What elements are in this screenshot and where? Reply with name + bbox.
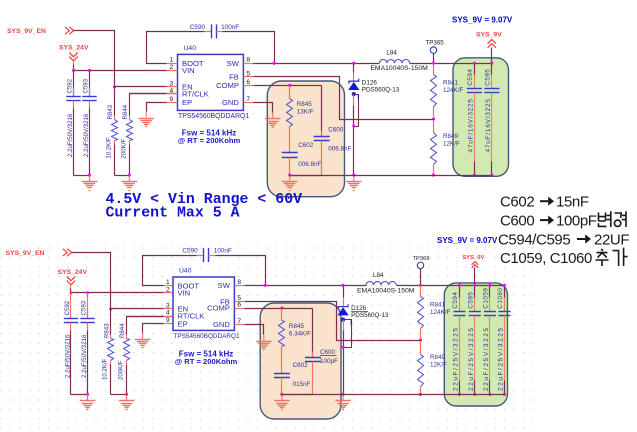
svg-text:R843: R843: [103, 323, 110, 338]
svg-text:SYS_9V: SYS_9V: [476, 32, 502, 39]
junction R849 ground: [419, 393, 422, 396]
junction EN node: [109, 307, 112, 310]
svg-text:9: 9: [166, 317, 170, 324]
svg-text:C602: C602: [298, 142, 314, 149]
svg-text:2: 2: [170, 64, 174, 71]
svg-text:EMA10040S-150M: EMA10040S-150M: [370, 65, 428, 72]
svg-text:22UF: 22UF: [594, 231, 629, 248]
wire GND pin to ground: [254, 103, 273, 113]
svg-text:10.2K/F: 10.2K/F: [106, 137, 113, 159]
svg-text:124K/F: 124K/F: [430, 309, 450, 316]
junction D126 loop: [352, 124, 355, 127]
svg-text:R843: R843: [107, 104, 114, 119]
svg-text:D126: D126: [351, 305, 367, 312]
svg-text:R849: R849: [430, 354, 446, 361]
svg-text:C594/C595: C594/C595: [498, 231, 570, 248]
compensation highlight box (peach): [260, 303, 341, 419]
svg-text:C600: C600: [320, 349, 336, 356]
svg-text:200K/F: 200K/F: [120, 139, 127, 159]
svg-text:EMA10040S-150M: EMA10040S-150M: [357, 287, 415, 294]
svg-text:C595: C595: [467, 292, 474, 309]
svg-text:22uF/25V/3225: 22uF/25V/3225: [453, 326, 460, 391]
svg-text:C1060: C1060: [497, 288, 504, 309]
svg-text:EP: EP: [178, 319, 188, 328]
svg-text:C594: C594: [452, 292, 459, 309]
capacitor C590 100nF: [211, 24, 213, 38]
capacitor C592: [70, 293, 72, 319]
junction D126 loop: [342, 346, 345, 349]
wire C600 to ground rail: [290, 175, 322, 177]
svg-text:R844: R844: [122, 104, 129, 119]
junction VIN/C592: [72, 69, 75, 72]
svg-text:C595: C595: [485, 69, 492, 86]
input port SYS_9V_EN: [63, 249, 67, 256]
svg-text:015nF: 015nF: [293, 381, 311, 388]
pin 7 GND: [244, 102, 254, 104]
svg-text:U40: U40: [179, 268, 192, 275]
wire SW net: [254, 63, 380, 65]
junction C594 bottom: [473, 174, 476, 177]
junction C1060 top: [503, 284, 506, 287]
svg-text:VIN: VIN: [178, 289, 191, 298]
wire SYS_24V to VIN row: [70, 285, 72, 289]
wire D126 anode loop: [344, 320, 352, 348]
wire D126 anode loop: [354, 95, 359, 127]
pin 2 VIN: [167, 70, 178, 72]
wire L84 to output rail: [397, 285, 505, 287]
capacitor C593: [89, 71, 91, 97]
capacitor C595 47uF/16V/3225: [491, 64, 493, 75]
svg-text:C593: C593: [82, 78, 89, 93]
pin 8 SW: [235, 285, 245, 287]
ground at GND pin: [272, 112, 274, 118]
resistor R843 10.2K/F: [114, 87, 116, 116]
junction C593 ground: [88, 174, 91, 177]
svg-text:22uF/25V/3225: 22uF/25V/3225: [468, 326, 475, 391]
wire COMP net: [254, 85, 290, 87]
ground for R843/R844: [126, 394, 128, 400]
svg-text:SYS_24V: SYS_24V: [59, 45, 89, 52]
svg-text:TP365: TP365: [426, 40, 445, 47]
svg-text:2: 2: [166, 286, 170, 293]
op-amp/regulator U40 TPS54560: [178, 54, 244, 110]
svg-text:R841: R841: [430, 302, 446, 309]
svg-text:22uF/25V/3225: 22uF/25V/3225: [498, 326, 505, 391]
junction TP/output: [432, 62, 435, 65]
svg-text:U40: U40: [184, 45, 197, 52]
korean text chu-ga (add): [596, 249, 609, 266]
wire VIN net: [74, 70, 167, 72]
svg-text:TP366: TP366: [413, 256, 430, 262]
junction SW/D126: [342, 284, 345, 287]
svg-text:SYS_9V_EN: SYS_9V_EN: [7, 28, 46, 35]
svg-text:C594: C594: [467, 69, 474, 86]
ground for D126: [353, 175, 355, 181]
resistor R849 12K/F: [420, 341, 422, 355]
svg-text:4: 4: [170, 87, 174, 94]
resistor R845 13K/F: [289, 86, 291, 99]
junction R844 ground: [125, 393, 128, 396]
svg-text:GND: GND: [222, 98, 239, 107]
svg-text:7: 7: [246, 96, 250, 103]
svg-text:12K/F: 12K/F: [430, 362, 447, 369]
svg-text:C600: C600: [328, 127, 344, 134]
ground for C592/C593: [87, 394, 89, 400]
svg-text:47uF/16V/3225: 47uF/16V/3225: [485, 98, 492, 152]
junction EN node: [113, 85, 116, 88]
svg-text:124K/F: 124K/F: [443, 87, 463, 94]
wire FB net: [245, 302, 421, 341]
wire SYS_9V_EN to EN node: [74, 31, 115, 87]
junction VIN/C593: [86, 291, 89, 294]
wire ground rail: [290, 175, 322, 177]
svg-text:1: 1: [170, 57, 174, 64]
capacitor C593: [87, 293, 89, 319]
resistor R843 10.2K/F: [110, 309, 112, 335]
svg-text:TPS54560BQDDARQ1: TPS54560BQDDARQ1: [174, 333, 241, 340]
junction SW/C590: [264, 284, 267, 287]
svg-text:GND: GND: [213, 320, 230, 329]
svg-text:3: 3: [166, 303, 170, 310]
wire BOOT to C590: [147, 32, 205, 64]
svg-text:8: 8: [246, 57, 250, 64]
wire FB net: [254, 77, 434, 120]
capacitor C1059 22uF/25V/3225: [489, 286, 491, 298]
svg-text:R841: R841: [443, 80, 459, 87]
junction C594 bottom: [458, 393, 461, 396]
svg-text:100pF: 100pF: [556, 212, 597, 229]
junction FB divider: [419, 339, 422, 342]
svg-text:100nF: 100nF: [221, 24, 239, 31]
pin 5 FB: [244, 76, 254, 78]
svg-text:3: 3: [170, 80, 174, 87]
pin 9 EP: [164, 323, 173, 325]
junction D126 ground rail: [352, 174, 355, 177]
junction FB divider: [432, 118, 435, 121]
wire BOOT to C590: [143, 256, 197, 286]
svg-text:R845: R845: [297, 101, 313, 108]
capacitor C594 47uF/16V/3225: [474, 64, 476, 75]
resistor R844 200K/F: [127, 317, 173, 335]
svg-text:13K/F: 13K/F: [297, 109, 314, 116]
junction C595 bottom: [490, 174, 493, 177]
svg-text:12K/F: 12K/F: [443, 141, 460, 148]
svg-text:L84: L84: [373, 272, 384, 279]
svg-text:6.34K/F: 6.34K/F: [289, 331, 311, 338]
wire EP to ground: [147, 103, 167, 112]
svg-text:200K/F: 200K/F: [118, 360, 125, 380]
svg-text:C592: C592: [66, 78, 73, 93]
capacitor C600 006.8nF: [321, 86, 323, 137]
svg-text:R844: R844: [119, 323, 126, 338]
wire EN net: [111, 308, 164, 310]
output capacitors highlight box (green): [453, 58, 509, 177]
svg-text:@ RT = 200Kohm: @ RT = 200Kohm: [178, 136, 241, 145]
wire GND pin to ground: [245, 325, 264, 335]
svg-text:SW: SW: [218, 281, 231, 290]
junction C602 ground: [280, 393, 283, 396]
capacitor C1060 22uF/25V/3225: [504, 286, 506, 298]
output capacitors highlight box (green): [444, 283, 507, 406]
junction SW/D126: [352, 62, 355, 65]
svg-text:PDS560Q-13: PDS560Q-13: [351, 312, 389, 319]
op-amp/regulator U40 TPS54560: [173, 277, 234, 330]
junction C595 bottom: [473, 393, 476, 396]
junction TP/output: [419, 284, 422, 287]
pin 1 BOOT: [167, 63, 178, 65]
svg-text:4: 4: [166, 310, 170, 317]
junction R844 ground: [128, 174, 131, 177]
ground at GND pin: [263, 335, 265, 341]
junction C595 top: [490, 62, 493, 65]
svg-text:D126: D126: [362, 79, 378, 86]
diode D126 PDS560Q-13: [343, 286, 345, 298]
svg-text:15nF: 15nF: [556, 194, 589, 211]
wire C590 to SW node: [209, 255, 216, 257]
pin 9 EP: [167, 102, 178, 104]
svg-text:47uF/16V/3225: 47uF/16V/3225: [467, 98, 474, 152]
junction COMP/R845: [280, 306, 283, 309]
svg-text:C602: C602: [500, 194, 534, 211]
capacitor C602 015nF: [274, 373, 290, 375]
svg-text:C1059: C1059: [483, 288, 490, 309]
resistor R845 6.34K/F: [281, 309, 283, 321]
pin 3 EN: [167, 86, 178, 88]
junction C594 top: [458, 284, 461, 287]
svg-text:C602: C602: [293, 362, 309, 369]
capacitor C594 22uF/25V/3225: [459, 286, 461, 298]
inductor L84 EMA10040S-150M: [366, 282, 396, 286]
pin 1 BOOT: [164, 285, 173, 287]
capacitor C602 006.8nF: [282, 152, 298, 154]
diode D126 PDS560Q-13: [353, 64, 355, 73]
input port SYS_9V_EN: [65, 27, 69, 34]
svg-text:22uF/25V/3225: 22uF/25V/3225: [483, 326, 490, 391]
svg-text:9: 9: [170, 96, 174, 103]
wire VIN net: [71, 292, 164, 294]
wire C590 to SW node: [217, 31, 223, 33]
ground at EP: [145, 111, 147, 117]
svg-text:VIN: VIN: [182, 66, 195, 75]
resistor R844 200K/F: [130, 94, 178, 116]
svg-text:5: 5: [246, 71, 250, 78]
pin 8 SW: [244, 63, 254, 65]
wire ground rail: [282, 394, 313, 396]
svg-text:2.2uF/50V/3216: 2.2uF/50V/3216: [83, 113, 90, 157]
pin 5 FB: [235, 301, 245, 303]
resistor R849 12K/F: [433, 120, 435, 133]
junction VIN/C592: [69, 291, 72, 294]
junction C602 ground: [288, 174, 291, 177]
pin 4 RT/CLK: [167, 93, 178, 95]
korean text byeon-gyeong (change): [599, 211, 611, 227]
svg-text:R849: R849: [443, 133, 459, 140]
svg-text:SYS_9V = 9.07V: SYS_9V = 9.07V: [437, 236, 498, 245]
pin 4 RT/CLK: [164, 316, 173, 318]
junction C1059 bottom: [488, 393, 491, 396]
junction D126 ground rail: [342, 393, 345, 396]
junction C594 top: [473, 62, 476, 65]
wire COMP net: [245, 308, 282, 310]
svg-text:10.2K/F: 10.2K/F: [102, 358, 109, 380]
junction C593 ground: [86, 393, 89, 396]
svg-text:C593: C593: [80, 300, 87, 315]
svg-text:2.2uF/50V/3216: 2.2uF/50V/3216: [64, 334, 71, 378]
svg-text:100nF: 100nF: [214, 248, 232, 255]
ground for D126: [342, 394, 344, 400]
svg-text:8: 8: [237, 279, 241, 286]
resistor R841 124K/F: [433, 64, 435, 75]
capacitor C590 100nF: [203, 248, 205, 262]
svg-text:6: 6: [237, 302, 241, 309]
svg-text:006.8nF: 006.8nF: [328, 146, 351, 153]
junction SW/C590: [273, 62, 276, 65]
svg-text:1: 1: [166, 279, 170, 286]
test point TP366: [417, 262, 423, 268]
inductor L84 EMA10040S-150M: [379, 59, 409, 63]
pin 2 VIN: [164, 292, 173, 294]
ground for C592/C593: [89, 175, 91, 181]
compensation highlight box (peach): [267, 81, 344, 197]
pin 6 COMP: [235, 308, 245, 310]
svg-text:2.2uF/50V/3216: 2.2uF/50V/3216: [81, 334, 88, 378]
wire C592-C593 ground rail: [71, 394, 88, 396]
svg-text:SYS_24V: SYS_24V: [58, 269, 88, 276]
junction C1059 top: [488, 284, 491, 287]
junction VIN/C593: [88, 69, 91, 72]
wire R843-R844 ground rail: [115, 175, 130, 177]
svg-text:7: 7: [237, 318, 241, 325]
junction C595 top: [473, 284, 476, 287]
capacitor C600 100pF: [312, 309, 314, 358]
svg-text:006.8nF: 006.8nF: [298, 161, 321, 168]
svg-text:TPS54560BQDDARQ1: TPS54560BQDDARQ1: [178, 113, 249, 120]
wire EN net: [115, 86, 167, 88]
svg-text:C590: C590: [182, 248, 198, 255]
junction R849 ground: [432, 174, 435, 177]
pin 6 COMP: [244, 85, 254, 87]
wire RT/CLK net: [127, 316, 164, 318]
test point TP365: [430, 47, 436, 53]
svg-text:SYS_9V = 9.07V: SYS_9V = 9.07V: [452, 15, 513, 24]
svg-text:SYS_9V: SYS_9V: [462, 255, 484, 261]
ground for C602: [281, 394, 283, 400]
capacitor C595 22uF/25V/3225: [474, 286, 476, 298]
wire SW net: [245, 285, 367, 287]
svg-text:R845: R845: [289, 323, 305, 330]
svg-text:EP: EP: [182, 98, 192, 107]
svg-text:C1059, C1060: C1059, C1060: [500, 250, 592, 267]
wire C592-C593 ground rail: [74, 175, 90, 177]
svg-text:L84: L84: [386, 50, 397, 57]
wire L84 to output rail: [410, 63, 492, 65]
svg-text:PDS560Q-13: PDS560Q-13: [362, 87, 400, 94]
svg-text:@ RT = 200Kohm: @ RT = 200Kohm: [175, 357, 238, 366]
resistor R841 124K/F: [420, 286, 422, 297]
pin 7 GND: [235, 324, 245, 326]
ground at EP: [142, 333, 144, 339]
wire R843-R844 ground rail: [111, 394, 127, 396]
svg-text:COMP: COMP: [207, 304, 230, 313]
wire EP to ground: [143, 324, 164, 333]
svg-text:Current Max 5 A: Current Max 5 A: [106, 206, 240, 222]
svg-text:6: 6: [246, 79, 250, 86]
wire SYS_9V_EN to EN node: [72, 253, 111, 309]
wire C600 to ground rail: [282, 394, 313, 396]
svg-text:SW: SW: [227, 59, 240, 68]
svg-text:100pF: 100pF: [320, 358, 338, 365]
ground for C602: [289, 175, 291, 181]
svg-text:2.2uF/50V/3216: 2.2uF/50V/3216: [67, 113, 74, 157]
wire SYS_24V to VIN row: [73, 61, 75, 65]
junction C1060 bottom: [503, 393, 506, 396]
junction COMP/R845: [288, 84, 291, 87]
svg-text:C600: C600: [500, 212, 534, 229]
svg-text:C592: C592: [64, 300, 71, 315]
svg-text:C590: C590: [190, 24, 206, 31]
wire RT/CLK net: [130, 93, 167, 95]
svg-text:SYS_9V_EN: SYS_9V_EN: [6, 250, 45, 257]
pin 3 EN: [164, 308, 173, 310]
svg-text:COMP: COMP: [216, 81, 239, 90]
ground for R843/R844: [128, 175, 130, 181]
capacitor C592: [73, 71, 75, 97]
